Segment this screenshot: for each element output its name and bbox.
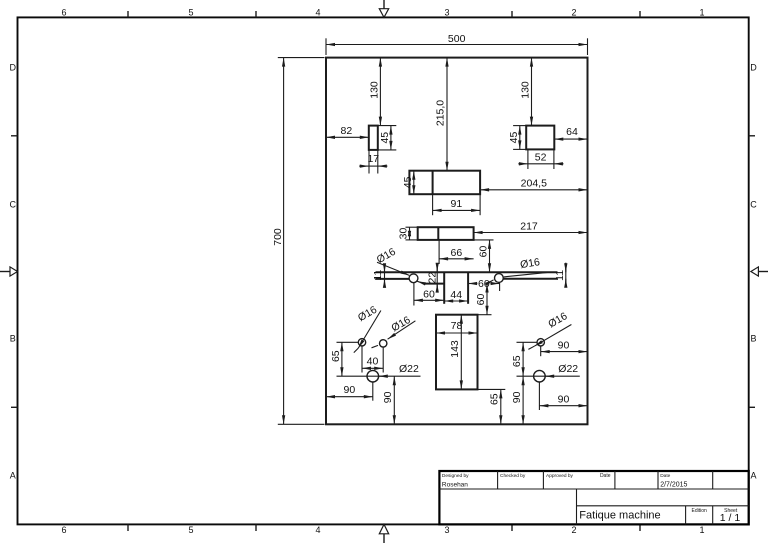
svg-text:Designed by: Designed by (442, 473, 469, 479)
svg-text:Edition: Edition (692, 508, 708, 514)
svg-text:3: 3 (444, 7, 449, 17)
svg-text:4: 4 (315, 525, 320, 535)
svg-text:500: 500 (448, 33, 466, 45)
svg-text:65: 65 (489, 393, 501, 405)
svg-text:2: 2 (571, 7, 576, 17)
svg-text:60: 60 (475, 294, 487, 306)
svg-text:60: 60 (423, 288, 435, 300)
svg-text:Rosehan: Rosehan (442, 482, 468, 489)
svg-text:D: D (10, 63, 17, 73)
svg-text:6: 6 (61, 525, 66, 535)
svg-text:78: 78 (451, 320, 463, 332)
svg-text:45: 45 (508, 132, 520, 144)
svg-text:17: 17 (367, 153, 379, 165)
svg-text:90: 90 (558, 393, 570, 405)
svg-text:130: 130 (520, 81, 532, 99)
svg-text:66: 66 (451, 247, 463, 259)
svg-text:2/7/2015: 2/7/2015 (660, 481, 687, 488)
svg-text:130: 130 (369, 81, 381, 99)
svg-text:64: 64 (566, 126, 578, 138)
svg-text:215,0: 215,0 (435, 100, 447, 126)
svg-text:90: 90 (382, 391, 394, 403)
svg-text:90: 90 (558, 339, 570, 351)
svg-text:90: 90 (511, 391, 523, 403)
svg-text:700: 700 (272, 228, 284, 246)
svg-text:90: 90 (344, 384, 356, 396)
svg-text:60: 60 (478, 278, 490, 290)
svg-text:Ø22: Ø22 (399, 363, 419, 375)
svg-text:45: 45 (379, 132, 391, 144)
svg-text:30: 30 (398, 228, 410, 240)
svg-text:C: C (750, 200, 757, 210)
svg-text:4: 4 (315, 7, 320, 17)
svg-text:Approved by: Approved by (546, 473, 574, 479)
svg-text:B: B (750, 334, 756, 344)
svg-text:65: 65 (511, 355, 523, 367)
svg-text:143: 143 (449, 340, 461, 358)
svg-text:A: A (10, 471, 16, 481)
svg-text:22: 22 (427, 272, 439, 284)
svg-text:Fatique machine: Fatique machine (579, 509, 660, 521)
svg-text:Ø22: Ø22 (558, 363, 578, 375)
svg-text:C: C (10, 200, 17, 210)
svg-text:Checked by: Checked by (500, 473, 526, 479)
svg-text:2: 2 (571, 525, 576, 535)
svg-text:1 / 1: 1 / 1 (720, 512, 741, 524)
svg-text:Date: Date (660, 473, 670, 479)
svg-text:60: 60 (478, 246, 490, 258)
svg-text:45: 45 (402, 176, 414, 188)
svg-text:5: 5 (188, 7, 193, 17)
svg-text:Date: Date (600, 473, 611, 479)
svg-text:65: 65 (330, 350, 342, 362)
svg-text:A: A (750, 471, 756, 481)
svg-text:91: 91 (451, 198, 463, 210)
svg-text:B: B (10, 334, 16, 344)
svg-text:6: 6 (61, 7, 66, 17)
svg-text:1: 1 (699, 525, 704, 535)
svg-text:44: 44 (450, 289, 462, 301)
svg-text:D: D (750, 63, 757, 73)
svg-text:217: 217 (520, 221, 538, 233)
svg-text:52: 52 (535, 151, 547, 163)
svg-text:1: 1 (699, 7, 704, 17)
svg-text:82: 82 (341, 125, 353, 137)
svg-text:40: 40 (367, 355, 379, 367)
svg-text:11: 11 (554, 270, 566, 281)
svg-text:3: 3 (444, 525, 449, 535)
svg-text:5: 5 (188, 525, 193, 535)
svg-text:204,5: 204,5 (521, 177, 547, 189)
svg-text:11: 11 (372, 270, 384, 281)
